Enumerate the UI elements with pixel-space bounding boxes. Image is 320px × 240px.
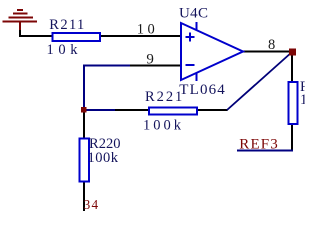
svg-text:8: 8	[268, 37, 275, 53]
svg-text:U4C: U4C	[179, 6, 208, 22]
svg-text:REF3: REF3	[239, 137, 277, 153]
svg-text:100k: 100k	[143, 118, 182, 134]
svg-text:R221: R221	[145, 89, 182, 105]
svg-text:9: 9	[146, 52, 154, 68]
svg-text:TL064: TL064	[179, 82, 225, 98]
svg-text:R211: R211	[49, 17, 84, 33]
svg-text:100k: 100k	[88, 150, 119, 166]
svg-text:34: 34	[84, 197, 99, 212]
svg-text:10k: 10k	[47, 42, 79, 58]
svg-text:10: 10	[300, 92, 316, 108]
